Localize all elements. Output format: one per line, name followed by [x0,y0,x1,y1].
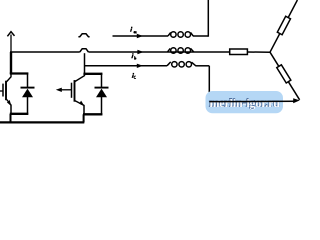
wire: bottom rail [0,121,84,123]
D1 vertical [27,73,29,89]
node bar: bottom of cell 2 [83,113,102,115]
D2 vertical [101,73,103,88]
emitter lead Q1 [6,99,11,105]
transistor Q2 (right IGBT) [58,73,85,115]
wire: lower wye branch diagonal [270,52,300,100]
wire: phase line c right lead [196,65,210,67]
transistor Q1 (left IGBT) [0,73,11,115]
wire: upper wye branch diagonal [270,0,297,52]
emitter lead Q2 [75,101,84,106]
wire: phase line a (y=36) [113,35,169,37]
D1 cathode bar [21,87,35,89]
gate arrow Q2 [56,88,62,92]
emitter arrowhead Q2 [79,101,84,107]
D2 triangle [96,89,107,98]
wire hop on phase line b over vertical [80,49,89,52]
wire: cell2 drop to bottom rail [83,114,85,122]
wire: phase line b (y=52) left of hop [10,51,80,53]
emitter vertical Q1 [10,105,12,115]
main bar Q1 [5,81,7,101]
svg-text:merlin-igor.ru: merlin-igor.ru [209,96,280,110]
wire: vertical down from phase line c [208,66,210,102]
label i_a [130,27,137,34]
collector lead Q2 [75,73,85,82]
arrow i_c on phase line c [137,64,143,68]
node bar: top of cell 2 [83,73,102,75]
diode D1 [21,73,35,115]
emitter vertical Q2 [83,105,85,115]
watermark plate [206,91,284,113]
resistor R3 (slanted box on lower branch) [277,65,291,83]
gate bar Q2 [71,83,73,98]
label i_c [132,73,136,79]
diode D2 [95,73,109,115]
wire: phase line a right lead [193,35,208,37]
inductor L2 on phase line b [168,48,194,53]
node bar: bottom of cell 1 [10,113,29,115]
inductor L3 on phase line c [167,62,196,67]
collector lead Q1 [6,73,11,82]
arrow i_a on phase line a [137,34,143,38]
arrow i_b on phase line b [137,50,143,54]
node bar: top of cell 1 [10,72,29,74]
wire: phase line c (y=65.8) [85,65,168,67]
wire: left rail thick segment [10,52,12,74]
wire: vertical up from phase line a to top edge [207,0,209,37]
gate lead Q1 [0,90,3,92]
main bar Q2 [74,80,76,102]
gate lead Q2 [58,89,72,91]
resistor R2 (horizontal box) on phase line b [230,49,248,55]
gate bar Q1 [2,84,4,97]
label i_b [131,53,136,59]
wire: cell1 drop to bottom rail [10,114,12,123]
inductor L1 on phase line a [168,32,193,37]
D1 triangle [22,89,33,98]
D2 cathode bar [95,87,109,89]
resistor R1 (slanted box on upper branch) [277,16,290,34]
wire: phase line b to star point [247,51,270,53]
wire: phase line b (y=52) hop to resistor [88,51,230,53]
wire: neutral return line (y=101.6) with right arrowhead [209,100,295,102]
wire: vertical from hop down to Q2 collector [84,53,86,74]
DC rail current arrow (top-left, pointing up) [7,32,14,37]
wire: left rail thin segment [10,35,12,53]
floating hop on phase line a [78,34,89,37]
emitter arrowhead Q1 [7,100,11,106]
